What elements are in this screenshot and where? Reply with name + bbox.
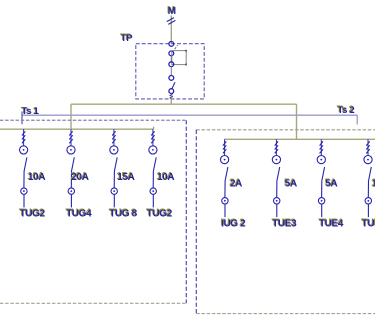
wire branch R4 drop from bus	[367, 139, 369, 155]
bus Ts1 end tick	[153, 127, 155, 130]
wire branch R3 drop from bus	[320, 139, 322, 155]
node Ts line right tick	[356, 115, 358, 124]
conductor slashes branch R3	[320, 141, 323, 153]
wire branch R2 drop from bus	[275, 139, 277, 155]
terminal top circle branch R3	[317, 156, 325, 164]
breaker blade branch L4	[153, 157, 156, 187]
wire branch R1 drop from bus	[224, 139, 226, 155]
terminal bottom circle branch L1	[21, 188, 27, 194]
breaker blade branch L3	[114, 157, 117, 187]
terminal bottom circle branch L2	[68, 188, 74, 194]
conductor slashes branch L4	[151, 131, 154, 143]
terminal circle TP c1	[169, 42, 174, 47]
wire feeder horizontal	[71, 103, 297, 105]
terminal bottom circle branch L4	[150, 188, 156, 194]
wire stub below branch R2	[276, 204, 278, 217]
conductor slashes branch L2	[69, 131, 72, 143]
switch blade TP c1-c2	[172, 45, 177, 52]
conductor slashes below TP c5	[170, 93, 173, 98]
wire branch L3 drop from bus	[113, 129, 115, 146]
svg-text:TUG 8: TUG 8	[109, 208, 137, 219]
conductor slashes branch R2	[275, 141, 278, 153]
breaker blade branch R3	[322, 167, 325, 197]
conductor slashes branch L3	[112, 131, 115, 143]
svg-text:2A: 2A	[230, 179, 242, 190]
node Ts line left tick	[21, 111, 23, 124]
wire feeder right leg to Ts2 bus	[296, 104, 298, 139]
svg-text:TUE2: TUE2	[362, 218, 375, 229]
enclosure TP dashed box	[136, 44, 204, 99]
enclosure Ts1 panel bottom edge	[0, 302, 186, 304]
terminal top circle branch R1	[221, 156, 229, 164]
svg-text:IUG 2: IUG 2	[221, 218, 246, 229]
terminal top circle branch R2	[272, 156, 280, 164]
enclosure Ts2 panel top edge	[196, 129, 375, 131]
enclosure Ts2 panel left edge	[195, 130, 197, 314]
svg-text:Ts 2: Ts 2	[337, 105, 354, 116]
svg-text:TUG2: TUG2	[147, 208, 173, 219]
enclosure Ts1 panel right edge	[185, 120, 187, 303]
wire stub below branch L3	[113, 195, 115, 208]
terminal top circle branch L3	[110, 146, 118, 154]
terminal bottom circle branch R4	[365, 198, 371, 204]
enclosure Ts2 panel bottom edge	[196, 313, 375, 315]
terminal top circle branch L4	[149, 146, 157, 154]
wire TP c3-c4	[170, 67, 172, 76]
svg-text:20A: 20A	[71, 172, 88, 183]
svg-text:TUE3: TUE3	[272, 218, 297, 229]
svg-text:TUG4: TUG4	[66, 208, 92, 219]
svg-text:M: M	[168, 6, 176, 17]
enclosure Ts1 panel top edge	[0, 119, 186, 121]
wire stub below branch R1	[224, 204, 226, 217]
svg-text:Ts 1: Ts 1	[22, 106, 40, 117]
wire stub below branch L4	[152, 195, 154, 208]
svg-text:10A: 10A	[28, 172, 45, 183]
terminal circle TP c4	[169, 76, 174, 81]
terminal top circle branch R4	[364, 156, 372, 164]
wire stub below branch R3	[321, 204, 323, 217]
wire stub below branch L2	[70, 195, 72, 208]
svg-text:5A: 5A	[325, 179, 337, 190]
wire TP c2-c3	[170, 56, 172, 62]
terminal bottom circle branch R1	[222, 198, 228, 204]
svg-text:TUE4: TUE4	[319, 218, 344, 229]
terminal circle TP c5	[169, 89, 174, 94]
terminal bottom circle branch L3	[111, 188, 117, 194]
wire TP box to feeder	[170, 99, 172, 104]
terminal top circle branch L1	[20, 146, 28, 154]
meter element rectangle TP	[172, 50, 187, 66]
wire supply drop from M	[170, 16, 172, 44]
breaker blade branch L1	[24, 157, 27, 187]
node Ts line horizontal	[22, 114, 358, 116]
svg-text:TUG2: TUG2	[20, 208, 46, 219]
wire stub below branch R4	[367, 204, 369, 217]
svg-text:TP: TP	[121, 33, 133, 44]
wire feeder left leg to Ts1 bus	[70, 104, 72, 129]
conductor slashes branch L1	[22, 131, 25, 143]
breaker blade branch R2	[277, 167, 280, 197]
switch blade TP c4-c5	[172, 82, 175, 89]
breaker blade branch R1	[225, 167, 228, 197]
terminal bottom circle branch R3	[318, 198, 324, 204]
breaker blade branch L2	[71, 157, 74, 187]
svg-text:15A: 15A	[117, 172, 134, 183]
conductor double slash on supply	[167, 18, 176, 25]
conductor slashes branch R4	[366, 141, 369, 153]
bus Ts1	[0, 128, 154, 130]
svg-text:10A: 10A	[157, 172, 174, 183]
wire branch L1 drop from bus	[23, 129, 25, 146]
terminal top circle branch L2	[67, 146, 75, 154]
terminal circle TP c3	[169, 62, 174, 67]
wire branch L2 drop from bus	[70, 129, 72, 146]
conductor slashes branch R1	[223, 141, 226, 153]
terminal circle TP c2	[169, 51, 174, 56]
wire stub below branch L1	[23, 195, 25, 208]
svg-text:5A: 5A	[285, 179, 297, 190]
wire branch L4 drop from bus	[152, 129, 154, 146]
terminal bottom circle branch R2	[274, 198, 280, 204]
wire TP c5 to box edge	[170, 94, 172, 99]
breaker blade branch R4	[368, 167, 371, 197]
bus Ts2	[224, 138, 375, 140]
